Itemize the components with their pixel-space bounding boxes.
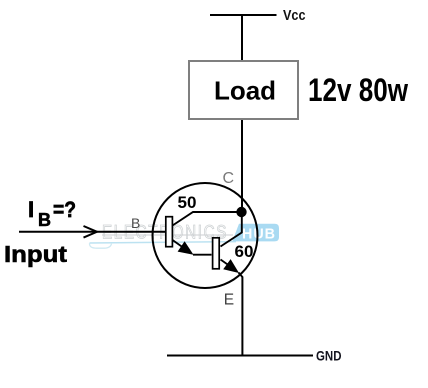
svg-text:B: B [131, 215, 140, 231]
transistor package circle (Darlington pair) [153, 183, 258, 288]
wire: emitter down to ground rail [241, 277, 243, 356]
transistor Q1 base bar [166, 217, 173, 247]
svg-text:Vcc: Vcc [283, 7, 306, 24]
svg-text:Input: Input [4, 241, 67, 267]
svg-text:GND: GND [316, 348, 342, 364]
svg-text:=?: =? [53, 197, 76, 222]
wire: input base lead [19, 231, 166, 233]
watermark ELECTRONICS HUB logo [89, 223, 279, 249]
Q1 emitter lead [173, 240, 189, 251]
svg-text:C: C [223, 170, 235, 187]
svg-text:B: B [38, 210, 51, 230]
wire: Q1 emitter to Q2 base [193, 254, 212, 256]
wire: load to collector node [241, 120, 243, 208]
input arrowhead [84, 226, 98, 238]
transistor Q2 base bar [213, 238, 220, 269]
svg-text:50: 50 [178, 193, 197, 212]
Q2 emitter arrowhead [223, 259, 239, 273]
junction dot collector node [236, 207, 246, 217]
svg-text:I: I [28, 197, 34, 222]
svg-text:60: 60 [235, 242, 254, 261]
wire: Vcc rail down to load [241, 15, 243, 61]
Q1 emitter arrowhead [178, 241, 194, 255]
label IB=? [28, 197, 76, 230]
svg-text:12v 80w: 12v 80w [308, 72, 408, 108]
svg-text:HUB: HUB [242, 227, 276, 243]
svg-text:E: E [224, 291, 234, 308]
load block [189, 61, 298, 119]
Q2 emitter lead [221, 260, 235, 270]
wire: ground rail [167, 355, 313, 357]
Q2 collector lead [221, 212, 242, 247]
wire: Vcc top rail [210, 14, 277, 16]
svg-text:Load: Load [214, 76, 276, 106]
Q1 collector lead [173, 212, 242, 226]
wire: Q2 emitter tip to emitter wire [239, 273, 243, 278]
